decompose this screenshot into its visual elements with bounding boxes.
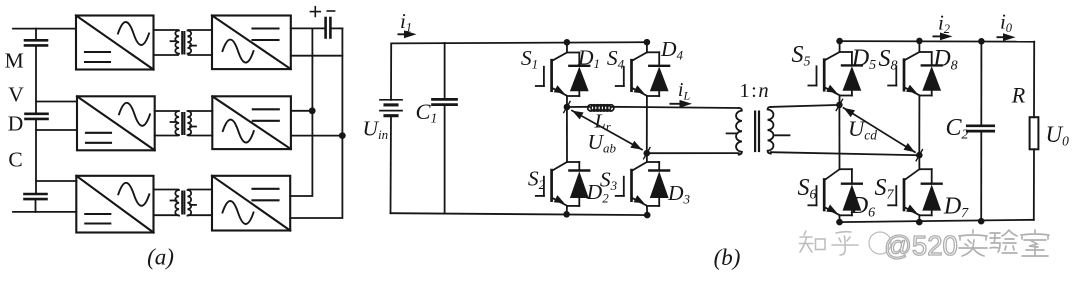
converter box DC/AC row3 [76, 176, 153, 233]
transistor S4 [616, 52, 647, 96]
svg-text:i2: i2 [938, 11, 950, 37]
current arrow i0 [997, 36, 1007, 38]
svg-text:R: R [1011, 83, 1026, 108]
junction dot bus A row2 [309, 107, 316, 114]
svg-text:D4: D4 [660, 37, 684, 63]
converter box DC/AC row2 [77, 96, 155, 150]
wire: to box2a bottom input [36, 129, 77, 131]
transformer stub right [775, 134, 790, 136]
wire: DC source left vertical (bottom) [390, 116, 393, 214]
wire: resistor to bottom right corner [1033, 149, 1035, 220]
wire: box2a to transformer2 [155, 110, 178, 112]
diode D2 [567, 162, 589, 206]
svg-text:D5: D5 [851, 46, 876, 74]
transformer T3 [171, 190, 197, 216]
current arrow iL [670, 103, 684, 105]
diode D6 [840, 169, 862, 215]
watermark zhihu @520 lab [800, 231, 892, 255]
transistor S5 [808, 52, 839, 95]
wire: bottom rail right bridge [840, 220, 1034, 222]
svg-text:S4: S4 [607, 46, 625, 72]
svg-text:D3: D3 [667, 181, 691, 207]
voltage arrow Uab [572, 111, 642, 150]
wire: cap1 top stub [35, 29, 37, 41]
wire: box1a to transformer1 [154, 29, 179, 31]
svg-text:S6: S6 [798, 175, 817, 203]
transformer core [755, 112, 759, 151]
transformer T1 [171, 31, 197, 54]
battery Uin [380, 100, 402, 116]
wire: row2 - output [291, 135, 342, 137]
svg-text:S1: S1 [521, 46, 538, 72]
diode D3 [647, 162, 669, 206]
svg-text:C: C [8, 147, 22, 171]
wire: top rail left bridge [391, 42, 647, 43]
wire: C2 bottom lead [980, 131, 982, 221]
wire: row2 + output [291, 110, 312, 112]
node c [836, 102, 843, 109]
transistor S2 [536, 162, 567, 206]
transformer stub left [727, 132, 737, 134]
capacitor (input cap 2) [26, 114, 48, 119]
node b [644, 150, 651, 157]
wire: leg C segments [839, 41, 841, 52]
wire: top rail right bridge [840, 40, 1035, 43]
junction dots top rails [564, 39, 571, 46]
wire: transformer secondary bottom to node d [771, 152, 920, 155]
wire: transformer2 to box2b [189, 110, 213, 112]
diode D7 [919, 169, 941, 215]
diode D5 [840, 52, 862, 96]
transistor S6 [808, 169, 839, 215]
wire: transformer3 to box3b [189, 189, 213, 191]
wire: to box3a top input [36, 180, 76, 182]
minus sign of output cap [327, 10, 334, 12]
svg-text:C2: C2 [946, 115, 969, 143]
wire: box3a to transformer3 [154, 189, 179, 191]
svg-text:S3: S3 [600, 168, 618, 194]
wire: cap to bus B corner [330, 27, 342, 29]
diode D8 [919, 52, 941, 96]
capacitor (input cap 3) [25, 194, 47, 199]
transformer 1:n primary winding [736, 108, 742, 155]
svg-text:(b): (b) [714, 245, 741, 270]
resistor R [1030, 117, 1039, 149]
wire: node b to transformer primary bottom [647, 152, 739, 154]
svg-text:1:n: 1:n [739, 80, 768, 102]
capacitor (output filter cap) [326, 18, 331, 38]
current arrow i2 [933, 35, 944, 37]
converter box DC/AC row1 [76, 16, 154, 70]
transformer 1:n secondary winding [768, 107, 774, 154]
node: MVDC top terminal wire [13, 28, 76, 30]
svg-text:U0: U0 [1046, 122, 1070, 149]
svg-text:(a): (a) [147, 245, 174, 270]
voltage arrow Ucd [844, 108, 916, 152]
wire: row1 + output to cap [291, 27, 326, 29]
wire: C1 bottom lead [444, 105, 446, 214]
svg-text:C1: C1 [416, 99, 438, 126]
svg-text:i1: i1 [400, 9, 412, 35]
svg-text:S2: S2 [528, 167, 546, 193]
capacitor C1 [433, 99, 457, 104]
transistor S1 [536, 53, 567, 96]
transformer T2 [171, 111, 197, 135]
capacitor (input cap 1) [25, 40, 47, 45]
node a [564, 104, 571, 111]
node: MVDC bottom terminal wire [13, 211, 76, 213]
svg-text:@520: @520 [884, 230, 958, 261]
wire: C1 top lead [444, 43, 446, 100]
converter box AC/DC row1 [212, 16, 291, 70]
wire: row1 - output [291, 55, 343, 57]
transistor S3 [616, 162, 647, 206]
svg-text:D1: D1 [577, 46, 600, 72]
junction dots bottom rails [563, 211, 570, 218]
svg-text:D8: D8 [932, 46, 957, 74]
wire: leg B segments [646, 42, 648, 52]
diode D4 [647, 52, 669, 96]
svg-text:S5: S5 [792, 42, 811, 70]
wire: C2 top lead [980, 41, 982, 126]
junction dot bus B row2 [339, 132, 346, 139]
wire: right edge down to resistor [1033, 42, 1035, 118]
transistor S7 [888, 169, 919, 215]
wire: leg A segments [566, 42, 568, 52]
current arrow i1 [398, 33, 408, 35]
wire: cap3 bottom stub [35, 199, 37, 212]
wire: to box2a top input [36, 101, 77, 103]
wire: input bus cap1-cap2 [35, 45, 37, 113]
svg-text:i0: i0 [1000, 10, 1013, 36]
svg-text:D7: D7 [943, 194, 969, 222]
svg-text:S7: S7 [875, 175, 895, 203]
converter box AC/DC row3 [212, 176, 290, 231]
wire: node a to transformer primary top [567, 106, 590, 108]
wire: bus B vertical [290, 28, 342, 218]
wire: bus A vertical [290, 28, 312, 196]
svg-text:V: V [8, 83, 24, 107]
svg-text:M: M [5, 48, 24, 72]
inductor Lr [588, 105, 614, 111]
diode D1 [567, 53, 589, 97]
plus sign of output cap [310, 7, 320, 17]
svg-text:Uin: Uin [363, 117, 389, 143]
svg-text:S8: S8 [879, 46, 898, 74]
svg-text:Ucd: Ucd [848, 116, 877, 143]
svg-text:D6: D6 [850, 193, 875, 221]
wire: input bus cap2-cap3 [35, 119, 37, 194]
node d [916, 152, 923, 159]
wire: transformer secondary top to node c [771, 105, 840, 107]
wire: leg D segments [918, 41, 920, 52]
converter box AC/DC row2 [212, 96, 291, 149]
svg-text:D: D [8, 111, 24, 135]
transistor S8 [888, 52, 919, 95]
wire: transformer1 to box1b [189, 29, 213, 31]
wire: bottom rail left bridge [391, 213, 647, 215]
capacitor C2 [967, 126, 993, 131]
wire: DC source left vertical (top) [390, 43, 392, 99]
svg-text:iL: iL [678, 79, 691, 103]
